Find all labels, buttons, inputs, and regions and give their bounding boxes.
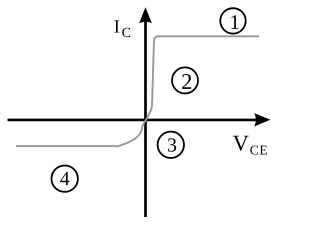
svg-text:1: 1	[229, 10, 240, 34]
svg-text:3: 3	[167, 134, 177, 156]
svg-text:CE: CE	[250, 142, 268, 157]
svg-text:2: 2	[181, 69, 192, 94]
svg-text:C: C	[122, 26, 131, 41]
svg-text:4: 4	[60, 168, 70, 190]
svg-text:V: V	[233, 130, 249, 155]
svg-text:I: I	[114, 17, 120, 37]
